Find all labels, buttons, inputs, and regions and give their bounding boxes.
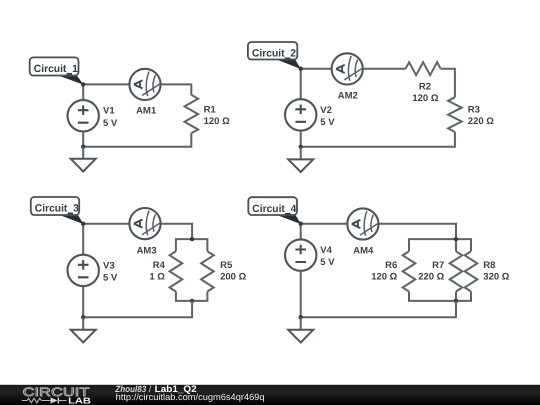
ground circuit 4 (288, 330, 313, 343)
wire parallel bottom to rail (83, 301, 192, 317)
node junction dot top circuit 1 (81, 82, 85, 86)
wire ammeter AM4 to parallel network corner (378, 224, 456, 239)
ground circuit 2 (288, 159, 313, 172)
junction dot parallel top circuit 4 (454, 237, 458, 241)
resistor R3 (448, 97, 462, 132)
node label flag Circuit_2 (248, 42, 301, 69)
voltage source V3 (68, 255, 99, 286)
wire node to ammeter AM3 (83, 223, 130, 225)
node junction dot top circuit 4 (299, 222, 303, 226)
svg-text:V3: V3 (103, 260, 115, 271)
wire parallel bottom bar with stubs (176, 292, 208, 301)
ammeter AM3 (129, 208, 160, 239)
svg-text:V4: V4 (320, 245, 332, 256)
svg-text:120 Ω: 120 Ω (204, 116, 230, 127)
junction dot parallel bottom (190, 299, 194, 303)
V4 value label 5 V (320, 245, 335, 268)
svg-text:AM4: AM4 (353, 245, 374, 256)
resistor R7 (450, 251, 463, 291)
svg-text:R5: R5 (220, 260, 233, 271)
node junction dot bottom circuit 1 (81, 145, 85, 149)
svg-text:http://circuitlab.com/cugm6s4q: http://circuitlab.com/cugm6s4qr469q (116, 392, 265, 402)
R1 value label 120 ohm (204, 105, 230, 128)
svg-text:AM1: AM1 (136, 106, 157, 117)
CircuitLab logo diode symbol (51, 398, 67, 404)
wire R1 bottom to rail (83, 133, 191, 146)
wire node to V1 top (82, 84, 84, 100)
resistor R4 (170, 251, 183, 291)
wire ammeter AM1 to resistor R1 branch with corner (160, 84, 191, 95)
R8 value label 320 ohm (483, 260, 509, 283)
wire node to V3 top (82, 224, 84, 255)
wire R3 bottom to rail (301, 132, 455, 147)
svg-text:200 Ω: 200 Ω (220, 272, 246, 283)
R3 value label 220 ohm (468, 104, 494, 127)
svg-text:120 Ω: 120 Ω (412, 93, 438, 104)
junction dot parallel bottom circuit 4 (454, 299, 458, 303)
wire ammeter AM2 to resistor R2 (362, 68, 406, 70)
wire V1 bottom (82, 132, 84, 147)
resistor R1 (185, 95, 199, 133)
voltage source V4 (285, 239, 316, 270)
svg-text:R8: R8 (483, 260, 495, 271)
svg-text:R3: R3 (468, 104, 480, 115)
wire ammeter AM3 to parallel network corner (160, 224, 192, 239)
R6 value label 120 ohm (371, 260, 397, 283)
R4 value label 1 ohm (149, 260, 165, 283)
wire to ground circuit 3 (82, 317, 84, 330)
ground circuit 3 (71, 330, 96, 343)
wire parallel top bar with stubs (176, 239, 208, 251)
node label flag Circuit_4 (248, 197, 301, 224)
footer bar (0, 385, 540, 405)
ammeter AM2 (332, 53, 363, 84)
wire parallel bottom to rail (301, 301, 456, 317)
svg-text:320 Ω: 320 Ω (483, 272, 509, 283)
svg-text:V1: V1 (103, 106, 115, 117)
wire R2 to corner down to R3 (441, 69, 455, 98)
wire to ground circuit 2 (300, 147, 302, 160)
svg-text:1 Ω: 1 Ω (149, 272, 165, 283)
svg-text:LAB: LAB (68, 395, 91, 405)
junction dot parallel top (190, 237, 194, 241)
node junction dot bottom circuit 2 (299, 145, 303, 149)
svg-text:V2: V2 (320, 105, 332, 116)
wire R7 bottom stub (455, 292, 457, 301)
R5 value label 200 ohm (220, 260, 246, 283)
wire node to V4 top (300, 224, 302, 240)
V3 value label 5 V (103, 260, 118, 283)
wire parallel top bar with stubs (409, 239, 471, 251)
wire V2 bottom (300, 131, 302, 147)
node label flag Circuit_1 (30, 57, 84, 84)
wire to ground circuit 4 (300, 317, 302, 330)
svg-text:R4: R4 (153, 260, 166, 271)
R2 value label 120 ohm (412, 81, 438, 104)
ammeter AM1 (129, 69, 160, 100)
node junction dot top circuit 3 (81, 222, 85, 226)
wire to ground circuit 1 (82, 147, 84, 159)
resistor R5 (201, 251, 214, 291)
voltage source V1 (68, 100, 99, 131)
svg-text:5 V: 5 V (320, 257, 335, 268)
wire V4 bottom (300, 271, 302, 317)
ground circuit 1 (71, 159, 96, 172)
wire node to ammeter AM1 (83, 83, 130, 85)
wire node to ammeter AM2 (301, 68, 332, 70)
ammeter AM4 (347, 208, 378, 239)
svg-text:R7: R7 (432, 260, 444, 271)
svg-text:R1: R1 (204, 105, 217, 116)
V2 value label 5 V (320, 105, 335, 128)
svg-text:220 Ω: 220 Ω (418, 272, 444, 283)
voltage source V2 (285, 99, 316, 130)
resistor R2 (406, 62, 441, 75)
wire parallel bottom bar with stubs (409, 292, 471, 301)
svg-text:5 V: 5 V (320, 117, 335, 128)
wire R7 top stub (455, 239, 457, 251)
svg-text:120 Ω: 120 Ω (371, 272, 397, 283)
wire node to V2 top (300, 69, 302, 100)
svg-text:AM2: AM2 (338, 91, 358, 102)
svg-text:AM3: AM3 (137, 246, 157, 257)
svg-text:5 V: 5 V (103, 273, 118, 284)
node junction dot top circuit 2 (299, 67, 303, 71)
svg-text:R6: R6 (385, 260, 397, 271)
node label flag Circuit_3 (31, 197, 84, 224)
svg-text:5 V: 5 V (103, 118, 118, 129)
svg-text:R2: R2 (419, 81, 431, 92)
wire node to ammeter AM4 (301, 223, 348, 225)
resistor R6 (403, 251, 416, 291)
svg-text:220 Ω: 220 Ω (468, 116, 494, 127)
CircuitLab logo resistor zigzag wire (22, 398, 51, 402)
resistor R8 (465, 251, 478, 291)
node junction dot bottom circuit 3 (81, 315, 85, 319)
wire V3 bottom (82, 286, 84, 317)
node junction dot bottom circuit 4 (299, 315, 303, 319)
V1 value label 5 V (103, 106, 118, 129)
R7 value label 220 ohm (418, 260, 444, 283)
